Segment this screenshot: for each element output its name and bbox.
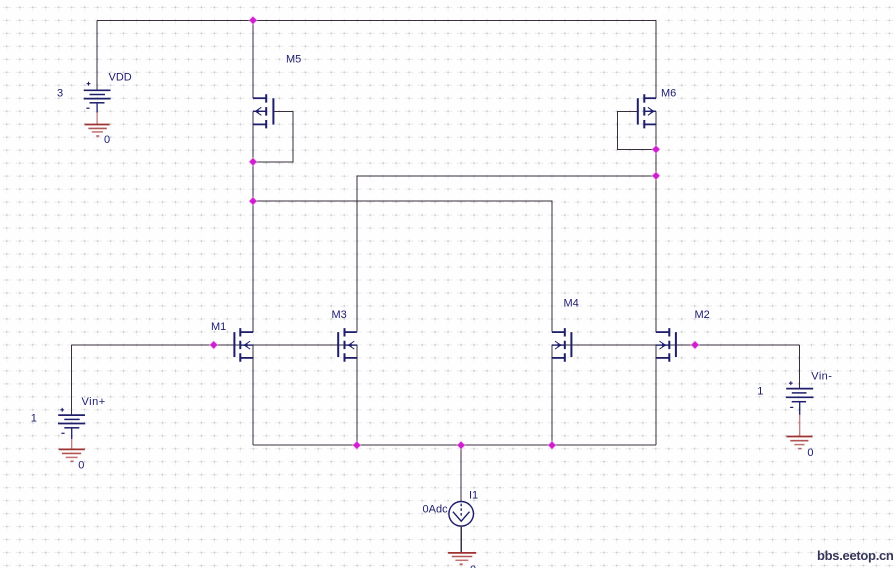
junction right cross wire bbox=[651, 171, 661, 181]
wire M6 main lower bbox=[655, 111, 657, 332]
wire M4 source drop bbox=[551, 345, 553, 445]
svg-text:0Adc: 0Adc bbox=[423, 503, 449, 515]
svg-text:bbs.eetop.cn: bbs.eetop.cn bbox=[817, 548, 894, 563]
junction M6 gate loop bbox=[651, 145, 661, 155]
junction tail rail M4 bbox=[547, 440, 557, 450]
wire Vin+ drop bbox=[71, 345, 73, 415]
svg-text:M2: M2 bbox=[695, 309, 710, 321]
junction Vin+ gate wire bbox=[209, 340, 219, 350]
ground 0 at VDD bbox=[85, 113, 110, 137]
junction Vin- gate wire bbox=[690, 340, 700, 350]
wire M3 source drop bbox=[356, 345, 358, 445]
wire right cross to M3 gate bbox=[357, 176, 655, 332]
wire M1 source drop bbox=[252, 345, 254, 445]
ground 0 at I1 bbox=[448, 553, 476, 564]
voltage source Vin+ bbox=[58, 408, 85, 439]
svg-text:3: 3 bbox=[57, 87, 63, 99]
wire M6 drain upper bbox=[655, 20, 657, 98]
wire Vin- drop bbox=[799, 345, 801, 389]
svg-text:M6: M6 bbox=[661, 88, 676, 100]
wire top rail VDD bbox=[97, 19, 656, 21]
svg-text:1: 1 bbox=[757, 385, 763, 397]
wire M2 source drop bbox=[655, 345, 657, 445]
current source I1 bbox=[449, 502, 474, 527]
svg-text:Vin+: Vin+ bbox=[82, 396, 106, 408]
svg-text:0: 0 bbox=[104, 134, 110, 146]
junction M5 gate loop bbox=[248, 157, 258, 167]
svg-text:0: 0 bbox=[807, 447, 813, 459]
wire M5 drain upper bbox=[252, 20, 254, 98]
svg-text:I1: I1 bbox=[469, 490, 478, 502]
wire M5 gate loop bbox=[254, 111, 293, 162]
svg-text:1: 1 bbox=[31, 412, 37, 424]
svg-text:0: 0 bbox=[78, 459, 84, 471]
junction top rail bbox=[248, 15, 258, 25]
wire VDD drop bbox=[96, 20, 98, 89]
voltage source Vin- bbox=[786, 381, 814, 415]
svg-text:M3: M3 bbox=[332, 309, 347, 321]
svg-text:Vin-: Vin- bbox=[811, 371, 832, 383]
wire M6 gate loop bbox=[618, 111, 656, 149]
wire M5 main lower bbox=[252, 111, 254, 332]
transistor M4 bbox=[552, 328, 571, 362]
wire M4 M2 gates to Vin- bbox=[552, 344, 800, 346]
ground 0 at Vin+ bbox=[59, 439, 85, 461]
wire I1 drop bbox=[460, 445, 462, 501]
svg-text:VDD: VDD bbox=[109, 71, 132, 83]
wire I1 to ground bbox=[460, 526, 462, 553]
junction tail rail I1 bbox=[456, 440, 466, 450]
transistor M2 bbox=[656, 328, 676, 362]
junction tail rail M3 bbox=[352, 440, 362, 450]
wire bottom tail rail bbox=[253, 444, 656, 446]
transistor M5 bbox=[253, 94, 273, 128]
svg-text:M1: M1 bbox=[211, 321, 226, 333]
junction left cross wire bbox=[248, 196, 258, 206]
wire Vin+ to M1 M3 gates bbox=[72, 344, 357, 346]
svg-text:M4: M4 bbox=[564, 297, 579, 309]
transistor M3 bbox=[338, 328, 357, 362]
wire left cross to M4 gate bbox=[254, 201, 552, 331]
ground 0 at Vin- bbox=[786, 415, 812, 449]
svg-text:0: 0 bbox=[470, 564, 476, 568]
transistor M6 bbox=[638, 94, 656, 128]
transistor M1 bbox=[234, 328, 253, 362]
svg-text:M5: M5 bbox=[286, 54, 301, 66]
voltage source VDD bbox=[84, 82, 111, 113]
